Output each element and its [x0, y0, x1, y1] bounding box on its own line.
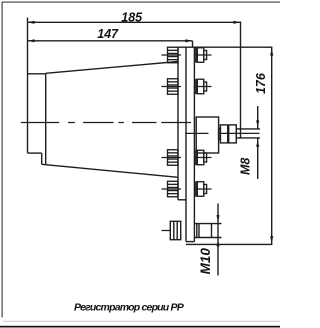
arrows dim 147	[28, 39, 35, 42]
M8 nuts	[220, 125, 236, 143]
body small cylinder bottom edge	[28, 152, 42, 154]
svg-text:185: 185	[121, 10, 143, 24]
bolt row 3 right nut	[194, 150, 211, 165]
bracket foot / 176 bottom extension line	[186, 243, 272, 245]
body cone top slope	[46, 62, 178, 74]
body cone bottom slope	[42, 164, 178, 177]
flange plate1 left face	[177, 47, 179, 200]
M8 stud axis tick left	[185, 132, 209, 134]
body rim vertical	[45, 73, 47, 164]
M8 dim line lower	[257, 138, 259, 179]
frame border top	[2, 2, 281, 3]
M10 shank right end	[211, 224, 213, 238]
extension line left (x=27.5 above body)	[27, 18, 29, 74]
flange plate2 bottom edge	[186, 241, 194, 243]
M10 bolt head	[170, 204, 221, 276]
bolt row 4 left stud	[162, 181, 182, 197]
M10 shank top	[194, 223, 221, 225]
flange plate1 bottom edge	[178, 199, 186, 201]
extension line x=240 for dim 185	[240, 22, 242, 130]
dim 147 line	[28, 40, 193, 42]
svg-text:M10: M10	[198, 248, 213, 275]
frame border bottom light	[3, 321, 281, 322]
center block	[196, 117, 218, 153]
M8 extension bottom	[241, 137, 261, 139]
body small cylinder left edge	[27, 74, 29, 153]
bolt row 1 right nut	[194, 48, 211, 63]
arrows dim 176	[270, 49, 273, 56]
flange plate1/plate2 shared face	[185, 47, 187, 241]
bolt row 4 right nut	[194, 182, 211, 197]
flange top edge + 176 top extension	[178, 46, 272, 48]
svg-text:M8: M8	[239, 158, 253, 175]
bolt row 2 right nut	[194, 79, 211, 94]
M8 extension top	[241, 128, 261, 130]
M10 left tick	[162, 230, 171, 232]
bottom rule	[0, 326, 280, 328]
svg-text:Регистратор серии РР: Регистратор серии РР	[74, 302, 185, 314]
bolt row 1 left stud	[162, 47, 182, 63]
dim 176 line	[271, 47, 273, 244]
frame border left	[2, 2, 3, 318]
body bottom step vertical	[41, 153, 43, 164]
flange plate2 right face	[193, 47, 195, 241]
arrows dim 185	[28, 21, 274, 244]
extension line x=193 for dim 147	[192, 41, 194, 47]
M8 arrows	[256, 120, 259, 146]
M10 arrows	[216, 215, 219, 246]
centerline	[21, 122, 191, 124]
M8 stud axis tick right	[219, 132, 260, 134]
M8 stud tip	[236, 129, 240, 138]
M10 shank bottom	[194, 237, 221, 239]
M10 thread marks	[196, 224, 198, 238]
dim 185 line	[28, 21, 241, 23]
svg-text:176: 176	[254, 72, 268, 94]
M10 dim line	[217, 204, 219, 276]
bolt row 3 left stud	[162, 150, 182, 166]
M8 dim line upper	[257, 106, 259, 129]
M8 washer	[219, 128, 221, 139]
bolt row 2 left stud	[162, 79, 182, 95]
body small cylinder top edge	[28, 73, 46, 75]
svg-text:147: 147	[97, 27, 119, 41]
